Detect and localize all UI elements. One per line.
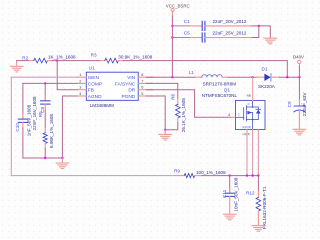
wire VCC riser (171, 16, 173, 77)
wire PGND riser (146, 96, 165, 130)
svg-text:FA/SYNC: FA/SYNC (115, 81, 136, 87)
resistor R3 (91, 53, 153, 63)
wire Q1 drain riser (252, 77, 254, 100)
node Q1 drain junction (251, 76, 253, 78)
svg-text:R6: R6 (171, 93, 176, 99)
svg-text:C9: C9 (287, 101, 292, 107)
ground GND at AGND (56, 158, 69, 169)
pin 5 PGND (138, 95, 152, 97)
pin 6 DR (138, 89, 152, 91)
wire FB riser (57, 61, 78, 90)
wire FA/SYNC to R6 (146, 83, 178, 98)
pin 2 COMP (78, 82, 86, 84)
wire R9 to sense node (202, 175, 258, 177)
svg-text:220uF_63V: 220uF_63V (302, 92, 307, 117)
node VCC-C1 junction (171, 25, 173, 27)
svg-text:SK220A: SK220A (258, 84, 276, 89)
svg-text:1(2)(3): 1(2)(3) (242, 132, 250, 136)
svg-text:DR: DR (128, 88, 135, 94)
wire comp bottom rail (23, 157, 63, 159)
svg-text:22uF_25V_2012: 22uF_25V_2012 (213, 31, 247, 36)
svg-text:R5: R5 (38, 111, 43, 117)
ground GND at R12 (252, 226, 265, 232)
node VIN junction (171, 76, 173, 78)
svg-text:AGND: AGND (88, 94, 102, 100)
pin 4 AGND (78, 95, 86, 97)
wire ISEN bottom rail (11, 175, 179, 177)
svg-text:C10: C10 (15, 123, 20, 132)
wire D1 cathode to D40V column (280, 76, 300, 78)
svg-text:NTMFS5C670NL: NTMFS5C670NL (202, 93, 238, 98)
node FB junction (56, 59, 58, 61)
inductor L1 (189, 70, 237, 86)
svg-text:D1: D1 (262, 67, 268, 72)
svg-text:ISEN: ISEN (88, 75, 100, 81)
svg-text:C11: C11 (222, 189, 227, 198)
node source junction 1 (246, 174, 248, 176)
svg-text:LM3488MM: LM3488MM (90, 103, 114, 108)
ground GND at R2 left (10, 61, 23, 72)
svg-text:100_1%_1608: 100_1%_1608 (196, 170, 226, 175)
node VCC-C5 junction (171, 36, 173, 38)
svg-text:4(8): 4(8) (247, 93, 252, 97)
svg-text:2: 2 (79, 78, 81, 83)
wire GND to R2 (17, 60, 30, 62)
svg-text:R2: R2 (22, 55, 28, 60)
node AGND junction (61, 157, 63, 159)
node C11 junction (229, 174, 231, 176)
svg-text:PRL1632-R006-F-T1: PRL1632-R006-F-T1 (262, 186, 267, 229)
svg-text:5: 5 (141, 91, 143, 96)
wire COMP to C10 corner (23, 82, 78, 84)
diode D1 (256, 67, 279, 90)
wire ISEN left (11, 76, 78, 78)
svg-text:COMP: COMP (88, 81, 102, 87)
svg-text:U1: U1 (89, 66, 95, 71)
svg-text:D: D (248, 103, 250, 106)
wire R3 to D40V node (crosses VCC riser, no dot) (123, 61, 287, 78)
svg-text:R9: R9 (174, 169, 180, 174)
node C1-C5 tie junction (258, 25, 260, 27)
wire C1 row right to top ground corner (212, 25, 252, 27)
ground GND at C9 (293, 129, 306, 135)
svg-text:7: 7 (141, 78, 143, 83)
wire C5 row left (172, 37, 190, 39)
wire VIN row to L1 (146, 76, 196, 78)
power D40V (293, 54, 304, 66)
node D40V junction (298, 76, 300, 78)
capacitor C5 (184, 31, 247, 42)
node R3 junction (286, 76, 288, 78)
svg-text:(1)(2)(3): (1)(2)(3) (242, 126, 251, 129)
svg-text:PGND: PGND (121, 94, 135, 100)
capacitor C10 (15, 83, 31, 158)
wire R2 to node FB (52, 60, 57, 62)
svg-text:VIN: VIN (127, 75, 135, 81)
pin 1 ISEN (78, 76, 86, 78)
wire AGND (62, 96, 78, 158)
svg-text:26.1K_1%_1608: 26.1K_1%_1608 (181, 98, 186, 132)
wire ISEN left riser (10, 77, 12, 175)
ground GND top right (264, 38, 277, 44)
svg-text:6: 6 (141, 85, 143, 90)
wire Q1 source stubs (246, 130, 248, 176)
pin 8 VIN (138, 76, 154, 78)
node source junction 3 (257, 174, 259, 176)
svg-text:6.98K_1%_1608: 6.98K_1%_1608 (49, 114, 54, 148)
capacitor C1 (184, 19, 247, 30)
node source junction 2 (251, 174, 253, 176)
svg-text:Q1: Q1 (224, 87, 231, 92)
svg-text:22nF_16V_1608: 22nF_16V_1608 (32, 96, 37, 130)
capacitor C11 (222, 176, 238, 214)
ground GND at PGND (159, 130, 172, 140)
wire L1 to Q1 drain node (228, 76, 256, 78)
pin 7 FA/SYNC (138, 82, 152, 84)
capacitor C8 (32, 83, 50, 130)
node R5 bottom junction (44, 157, 46, 159)
svg-text:FB: FB (88, 88, 94, 94)
resistor R6 (171, 93, 186, 132)
ground GND at C11 (223, 214, 236, 220)
pin 3 FB (78, 89, 86, 91)
op-amp U1 LM3488MM controller (78, 66, 154, 108)
svg-text:C1: C1 (184, 19, 190, 24)
svg-text:1: 1 (79, 72, 81, 77)
pin 4 gate lead (231, 116, 236, 118)
svg-text:R12: R12 (246, 191, 255, 196)
svg-text:22uF_20V_2012: 22uF_20V_2012 (213, 19, 247, 24)
resistor R9 (174, 169, 226, 178)
node COMP junction (44, 82, 46, 84)
node PGND junction (164, 129, 166, 131)
power VCC_BSRC (166, 3, 190, 16)
resistor R5 (38, 110, 54, 158)
svg-text:3: 3 (79, 85, 81, 90)
transistor Q1 NTMFS5C670NL (202, 77, 265, 175)
capacitor C9 polarized (287, 92, 307, 129)
resistor R2 (22, 55, 76, 63)
svg-text:VCC_BSRC: VCC_BSRC (166, 3, 190, 8)
wire C5 row right riser to C1 row (212, 37, 252, 39)
svg-text:1nF_50V_1608: 1nF_50V_1608 (26, 104, 31, 136)
wire node to R3 (57, 60, 100, 62)
svg-text:C5: C5 (184, 31, 190, 36)
svg-text:10nF_50V_1608: 10nF_50V_1608 (233, 177, 238, 211)
svg-text:8: 8 (141, 72, 143, 77)
wire C1 row left (172, 25, 190, 27)
wire DR to Q1 gate (146, 90, 230, 118)
svg-text:SRP1270-6R8M: SRP1270-6R8M (203, 81, 237, 86)
svg-text:R3: R3 (91, 53, 97, 58)
svg-text:1K_1%_1608: 1K_1%_1608 (48, 55, 76, 60)
wire R6 bottom to PGND node (165, 123, 178, 130)
svg-text:D40V: D40V (293, 54, 304, 59)
svg-text:L1: L1 (189, 70, 195, 75)
resistor R12 sense (246, 176, 267, 230)
svg-text:30.9K_1%_1608: 30.9K_1%_1608 (118, 54, 152, 59)
wire D40V riser (298, 66, 300, 100)
svg-text:G: G (238, 114, 240, 117)
